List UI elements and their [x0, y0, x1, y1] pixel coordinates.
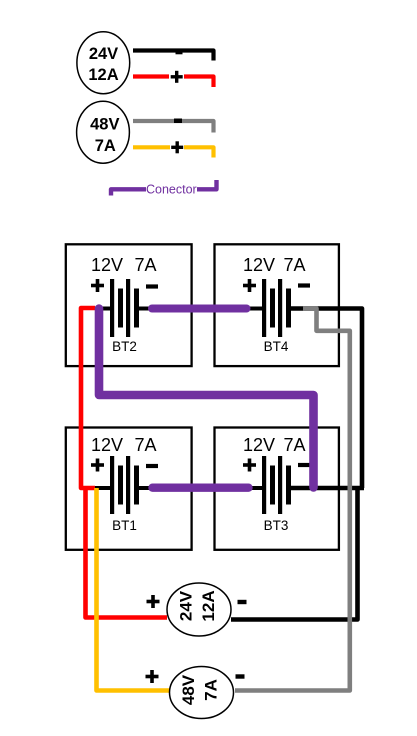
legend connector (purple) right segment: [197, 180, 217, 189]
svg-text:48V: 48V: [179, 674, 198, 705]
svg-text:7A: 7A: [134, 435, 156, 455]
svg-text:24V: 24V: [177, 590, 196, 621]
BT4 plus mark: [243, 279, 256, 292]
svg-text:12A: 12A: [199, 590, 218, 621]
label + at 24V output: [147, 595, 160, 608]
label - on black legend wire: [176, 50, 183, 55]
wire legend 24V negative (black): [133, 51, 214, 61]
wire legend 48V negative (gray): [133, 121, 214, 133]
svg-text:7A: 7A: [95, 137, 116, 155]
svg-text:12V: 12V: [91, 255, 123, 275]
BT3 minus mark: [298, 463, 310, 467]
battery box BT3: [215, 428, 339, 550]
svg-text:BT1: BT1: [112, 518, 137, 533]
battery BT3 symbol: [249, 456, 306, 514]
svg-text:7A: 7A: [134, 255, 156, 275]
svg-text:48V: 48V: [90, 116, 119, 134]
wire red junction down to 24V+: [86, 488, 168, 618]
battery BT2 symbol: [95, 279, 153, 337]
BT4 minus mark: [298, 283, 310, 287]
label - at 48V output: [236, 674, 245, 678]
svg-text:7A: 7A: [283, 255, 305, 275]
wire gray BT4- to 48V-: [235, 309, 350, 691]
battery box BT4: [215, 244, 339, 366]
label + on yellow legend wire: [171, 141, 183, 153]
output source 48V 7A: [170, 667, 234, 719]
wire: [184, 147, 214, 157]
battery BT1 symbol: [95, 456, 153, 514]
svg-text:7A: 7A: [283, 435, 305, 455]
BT1 minus mark: [146, 464, 158, 468]
legend source symbol 48V 7A: [77, 101, 130, 163]
svg-text:BT4: BT4: [264, 339, 289, 354]
BT1 plus mark: [91, 459, 104, 472]
wire legend 48V positive (yellow): [133, 145, 170, 149]
battery box BT1: [66, 428, 192, 550]
BT2 plus mark: [91, 279, 104, 292]
label - at 24V output: [238, 600, 247, 604]
wire black right bus lower to 24V-: [231, 488, 358, 620]
BT2 minus mark: [146, 284, 158, 288]
wire purple BT2+ to BT3-: [99, 309, 314, 488]
label + at 48V output: [146, 670, 159, 683]
legend connector (purple) left segment: [111, 189, 146, 195]
label - on gray legend wire: [174, 119, 182, 124]
label + on red legend wire: [171, 71, 183, 83]
BT3 plus mark: [243, 459, 256, 472]
wire red BT2+ down left side: [81, 308, 95, 488]
battery BT4 symbol: [249, 279, 306, 337]
wire yellow BT1+ down to 48V+: [97, 488, 171, 691]
svg-text:24V: 24V: [89, 45, 118, 63]
output source 24V 12A: [167, 583, 231, 636]
wire purple BT2- to BT4+: [152, 305, 247, 313]
svg-text:12V: 12V: [243, 255, 275, 275]
svg-text:7A: 7A: [202, 679, 221, 701]
svg-text:BT3: BT3: [264, 518, 289, 533]
wire: [184, 77, 214, 88]
svg-text:Conector: Conector: [146, 183, 197, 197]
legend source symbol 24V 12A: [77, 32, 130, 94]
wire purple BT1- to BT3+: [153, 484, 249, 492]
svg-text:12A: 12A: [88, 66, 118, 84]
svg-text:12V: 12V: [91, 435, 123, 455]
wire black BT4- down to 24V- (right bus upper): [290, 309, 362, 489]
svg-text:12V: 12V: [243, 435, 275, 455]
svg-text:BT2: BT2: [112, 339, 137, 354]
wire black BT3- to right bus: [290, 486, 364, 491]
wire legend 24V positive (red): [133, 74, 169, 78]
battery box BT2: [66, 244, 192, 366]
